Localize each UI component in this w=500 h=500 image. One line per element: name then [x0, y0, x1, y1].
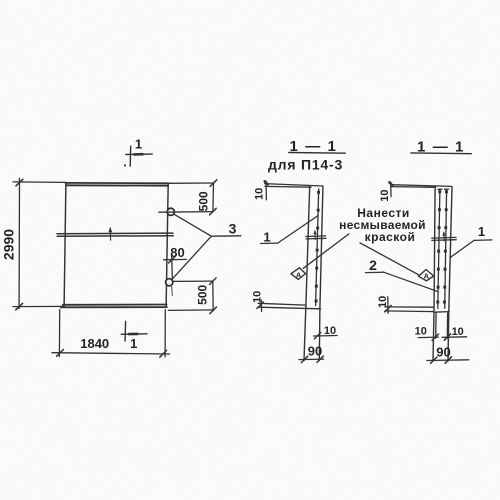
bottom tick 10 right-section [387, 297, 389, 314]
title underline right [411, 152, 471, 155]
mid break (double) [306, 236, 326, 239]
dim 500 bottom ticks [210, 278, 217, 314]
dim 500 top line [212, 183, 215, 212]
rod caps [438, 188, 449, 190]
label 2 leader [384, 272, 437, 291]
dim 1840 line [52, 353, 170, 354]
top plate (double line) [265, 184, 323, 188]
rod A [438, 189, 440, 308]
dim 1840 extension left [58, 310, 60, 357]
dim 10 right underline [442, 336, 467, 339]
dim 500 bottom ext at hook [173, 280, 212, 282]
dim 500 top ext at hook [159, 211, 213, 214]
panel left edge [64, 183, 66, 307]
top tick 10 [265, 181, 267, 200]
hook lower [166, 279, 173, 286]
rod B [445, 189, 447, 308]
dim 90 right ticks [431, 357, 452, 364]
faint scan texture [0, 0, 1, 1]
hook lower stem [171, 286, 174, 295]
dim 90 line [299, 358, 324, 361]
dim 500 bottom line [212, 281, 214, 310]
dim 1840 extension right [164, 310, 166, 357]
dim 2990 extension top [13, 181, 66, 184]
diamond right leader from text [360, 243, 419, 275]
bottom plate lines [258, 303, 321, 309]
dim 90 ticks [301, 356, 323, 363]
label 1 underline [261, 242, 278, 244]
mid break right (double) [432, 237, 457, 240]
dim 500 top ext from corner [168, 182, 213, 184]
title underline middle [289, 152, 346, 155]
rod B dots [443, 190, 448, 303]
label 1 right leader [450, 240, 474, 257]
bottom plate lines right [385, 307, 434, 312]
joint line (double) [57, 233, 173, 236]
panel bottom edge (double) [61, 305, 167, 308]
label 1 right underline [474, 239, 492, 242]
dim 80 tick [169, 256, 176, 263]
dim 1840 tick left [57, 349, 64, 356]
dim 1840 tick right [160, 350, 167, 357]
panel top edge (double) [66, 183, 169, 186]
dim 80 vline [171, 254, 174, 280]
bottom tick 10 left [260, 300, 262, 311]
bottom strip cap [434, 311, 449, 314]
dim 10 left underline [418, 336, 438, 339]
label 3 leader lower [173, 236, 212, 278]
dim 500 top ticks [210, 180, 217, 215]
panel right edge [166, 183, 168, 307]
strip left edge + ext [304, 186, 310, 360]
label 2 underline [366, 271, 384, 273]
dim 2990 line [18, 178, 20, 308]
section mark top vline [129, 146, 132, 166]
rod dots [315, 191, 320, 303]
label 3 underline [211, 235, 241, 237]
top plate (double) [391, 185, 452, 188]
dim 500 bottom ext at base [168, 309, 213, 312]
ext lines bottom right-section [436, 313, 448, 338]
mid break arrow right [443, 232, 445, 241]
mid break arrow [314, 231, 316, 240]
dim 10 bottom tick [314, 333, 320, 339]
hook upper [167, 208, 174, 215]
strip left edge + ext [433, 187, 435, 361]
strip right edge + ext [319, 187, 323, 361]
dim 90 right line [427, 359, 469, 362]
section mark bottom vline [124, 321, 127, 341]
dim 2990 extension bottom [13, 305, 64, 307]
section mark top hline [126, 153, 152, 155]
section mark bottom hline [121, 333, 147, 336]
label 1 leader [278, 215, 319, 243]
diamond leader from text [303, 234, 349, 268]
label 3 leader upper [175, 215, 212, 237]
dim 2990 tick top [16, 179, 23, 186]
rod A dots [436, 190, 441, 303]
diamond mark A right [419, 270, 434, 281]
dim 10 bottom underline [314, 335, 338, 338]
joint arrow [109, 228, 111, 240]
dim 10 ticks [432, 334, 451, 341]
top tick 10 right [390, 182, 392, 197]
strip right edge + ext [448, 187, 452, 361]
diamond mark A [291, 268, 306, 280]
dim 2990 tick bottom [16, 303, 23, 310]
strip rod [316, 189, 319, 306]
dim 80 line [164, 258, 187, 260]
